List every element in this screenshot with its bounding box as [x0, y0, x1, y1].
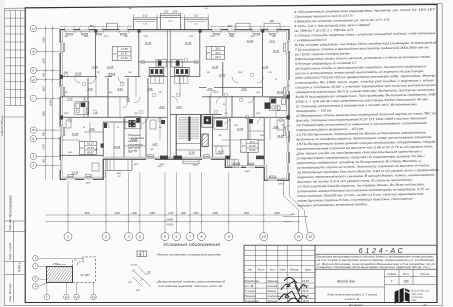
- windows right wall: [286, 40, 290, 173]
- axis circles 11 and 12 with bent leaders: [283, 181, 308, 233]
- svg-text:1870: 1870: [43, 86, 46, 92]
- svg-text:Разработал: Разработал: [245, 280, 260, 283]
- left axis circles: [30, 26, 36, 169]
- svg-text:Стадия: Стадия: [387, 273, 397, 276]
- left margin revision table: [5, 10, 26, 117]
- wall junction dark piers bottom: [60, 29, 290, 159]
- detail axis circles bottom: [44, 294, 96, 299]
- svg-text:01: 01: [117, 127, 119, 129]
- svg-text:исп. АВ: исп. АВ: [245, 285, 254, 288]
- svg-text:12607: 12607: [278, 184, 285, 186]
- sheet caption: [327, 293, 377, 301]
- lower band dark bits: [104, 119, 253, 128]
- svg-text:2100: 2100: [143, 36, 149, 38]
- entrance porch center: [183, 159, 199, 164]
- stage/sheet columns: [315, 269, 437, 302]
- svg-text:Главного Устинова (для выставк: Главного Устинова (для выставки больших …: [317, 265, 431, 269]
- svg-text:Дата: Дата: [304, 270, 312, 272]
- bottom axis circles: [64, 224, 268, 241]
- svg-text:2410: 2410: [133, 163, 140, 166]
- svg-text:/4.000: /4.000: [166, 224, 174, 227]
- svg-text:41.17: 41.17: [87, 142, 94, 146]
- svg-text:17.08: 17.08: [121, 47, 128, 51]
- svg-text:Лист: Лист: [402, 273, 409, 276]
- svg-text:Условные обозначения: Условные обозначения: [163, 242, 221, 247]
- plan annotation text block: [128, 135, 145, 153]
- svg-text:3400: 3400: [244, 212, 250, 215]
- svg-text:8: 8: [201, 235, 203, 239]
- svg-text:2680: 2680: [83, 36, 89, 38]
- svg-text:3180: 3180: [43, 111, 46, 117]
- svg-text:3600: 3600: [84, 212, 90, 215]
- balconies top center: [133, 15, 208, 29]
- svg-text:09.25: 09.25: [302, 280, 309, 283]
- svg-text:55.2: 55.2: [215, 51, 221, 55]
- institute logo: [395, 288, 410, 304]
- svg-text:ЭМ1: ЭМ1: [90, 26, 96, 28]
- top dimension line over balconies: [133, 13, 208, 20]
- detail drawing hatched unit: [36, 264, 88, 284]
- svg-text:9: 9: [228, 235, 230, 239]
- svg-text:Кол.уч: Кол.уч: [258, 270, 266, 272]
- left margin signature cells: [5, 221, 26, 303]
- svg-text:2680: 2680: [229, 36, 235, 38]
- svg-text:24600: 24600: [166, 219, 174, 222]
- svg-text:0415: 0415: [160, 163, 166, 166]
- svg-text:1200: 1200: [193, 212, 199, 215]
- svg-text:3: 3: [128, 235, 130, 239]
- svg-text:15300: 15300: [50, 99, 53, 106]
- svg-text:63 105: 63 105: [131, 264, 138, 266]
- svg-text:2400: 2400: [149, 212, 156, 215]
- svg-text:1770: 1770: [43, 144, 46, 150]
- svg-text:План отделочных работ 2, 3 эта: План отделочных работ 2, 3 этажа: [327, 293, 377, 297]
- svg-text:Маркова: Маркова: [267, 280, 278, 283]
- title block signature rows (handwritten): [245, 280, 310, 303]
- svg-text:1400: 1400: [181, 212, 187, 215]
- stair rail dark strip: [188, 117, 190, 142]
- small dim texts below bottom walls: [85, 163, 285, 186]
- svg-text:5: 5: [164, 235, 166, 239]
- svg-text:860: 860: [43, 131, 46, 136]
- svg-text:1200: 1200: [168, 212, 174, 215]
- windows top wall: [65, 29, 277, 32]
- svg-text:ЭМ1: ЭМ1: [228, 26, 234, 28]
- svg-text:- Место установки стиральной: - Место установки стиральной машины: [155, 252, 222, 256]
- svg-text:10: 10: [262, 235, 266, 239]
- radiators under windows: [63, 33, 285, 177]
- svg-text:2пГ: 2пГ: [128, 8, 133, 10]
- svg-text:Согласовано: Согласовано: [9, 195, 13, 216]
- bathroom cluster center top: [156, 59, 182, 67]
- svg-text:186: 186: [403, 280, 409, 284]
- svg-text:Рябова: Рябова: [267, 290, 276, 293]
- top dimension chain along wall: [59, 26, 289, 28]
- svg-text:2: 2: [104, 235, 107, 239]
- title block signature grid: [244, 245, 315, 302]
- svg-text:0.02: 0.02: [194, 16, 199, 18]
- svg-text:Н. контр: Н. контр: [245, 290, 256, 293]
- svg-text:передачи: передачи: [128, 140, 139, 143]
- svg-text:Подпись: Подпись: [290, 269, 300, 272]
- bathroom cluster right: [269, 98, 286, 111]
- svg-text:собственных: собственных: [128, 144, 143, 146]
- svg-text:16.08: 16.08: [249, 144, 256, 148]
- counters below vent blocks: [151, 76, 188, 83]
- svg-text:ИРКУТСКИЙ: ИРКУТСКИЙ: [412, 293, 423, 296]
- svg-text:2600: 2600: [212, 212, 219, 215]
- room area labels: [67, 40, 285, 175]
- svg-text:Инв. № подл.: Инв. № подл.: [8, 283, 12, 302]
- central bearing wall: [168, 30, 171, 158]
- svg-text:(2 этаж): (2 этаж): [128, 151, 138, 153]
- svg-text:- Дыхательный клапан, располо: - Дыхательный клапан, расположенный: [155, 280, 225, 284]
- door openings (white gaps): [97, 75, 214, 89]
- svg-text:2.08: 2.08: [163, 12, 169, 14]
- svg-text:РАЕХ: РАЕХ: [412, 299, 417, 302]
- svg-text:49.67: 49.67: [87, 150, 94, 154]
- svg-text:42.07: 42.07: [121, 52, 128, 56]
- svg-text:62.8: 62.8: [215, 55, 221, 59]
- svg-text:ПРОЕКТНЫЙ: ПРОЕКТНЫЙ: [412, 296, 424, 299]
- vent blocks flanking central wall: [149, 68, 164, 76]
- svg-text:АГ-1Б7: АГ-1Б7: [80, 273, 91, 277]
- svg-text:Рягузов: Рягузов: [267, 300, 277, 303]
- title block frame: [244, 245, 437, 302]
- stairwell walls: [176, 115, 200, 157]
- svg-text:Б: Б: [32, 137, 34, 141]
- stair flights: [178, 118, 199, 139]
- svg-text:2407: 2407: [85, 181, 92, 184]
- svg-text:Лист: Лист: [268, 270, 275, 272]
- left margin rotated labels: [8, 195, 22, 301]
- legend item valve sketch: [132, 267, 151, 288]
- scattered dimension figures: [63, 36, 286, 154]
- svg-text:А: А: [31, 164, 34, 168]
- svg-text:Снегова: Снегова: [267, 285, 277, 288]
- bathroom cluster left: [75, 102, 89, 115]
- detail drawing dashed block: [73, 257, 96, 283]
- signatures scribbles: [279, 277, 307, 303]
- svg-text:Копировал: Копировал: [349, 303, 364, 307]
- kitchen stove left: [125, 117, 141, 129]
- stair landing lines: [176, 144, 200, 151]
- balcony ledges top: [106, 23, 280, 29]
- svg-text:2407: 2407: [116, 172, 123, 175]
- svg-text:в осях 1-11: в осях 1-11: [345, 297, 360, 301]
- svg-text:В: В: [32, 128, 34, 132]
- detail connector lines: [38, 258, 94, 294]
- apartment label box 2: [206, 46, 225, 59]
- svg-text:12: 12: [75, 295, 78, 299]
- svg-text:12: 12: [308, 235, 312, 239]
- small fixture marker circles: [64, 58, 283, 122]
- interior walls horizontal: [60, 62, 289, 155]
- svg-text:2пГ: 2пГ: [204, 8, 209, 10]
- exterior wall ticks: [59, 28, 291, 138]
- entrance steps right: [227, 159, 238, 167]
- svg-text:910: 910: [43, 72, 46, 77]
- svg-text:14: 14: [92, 295, 95, 299]
- svg-text:44.34: 44.34: [121, 56, 128, 60]
- apartment label box 1: [112, 47, 131, 61]
- svg-text:2100: 2100: [188, 36, 194, 38]
- building outer wall outline: [60, 30, 289, 181]
- title description 4 lines: [315, 255, 435, 270]
- svg-text:Ж: Ж: [31, 49, 35, 53]
- general notes text block: [293, 7, 441, 207]
- svg-text:45.60: 45.60: [87, 146, 94, 150]
- legend item washing machine: [137, 251, 147, 257]
- interior bearing walls vertical: [88, 31, 264, 165]
- svg-text:ЭМ1: ЭМ1: [270, 21, 276, 23]
- svg-text:2100: 2100: [63, 113, 69, 115]
- bottom extension lines: [46, 172, 292, 224]
- svg-text:09.25: 09.25: [302, 290, 309, 293]
- svg-text:2100: 2100: [114, 212, 121, 215]
- svg-text:нужд кроме: нужд кроме: [128, 146, 141, 149]
- svg-text:2403: 2403: [192, 164, 199, 167]
- svg-text:4: 4: [139, 235, 141, 239]
- kitchen right: [214, 119, 227, 130]
- svg-text:11: 11: [297, 235, 301, 239]
- door swing arcs: [75, 77, 265, 129]
- svg-text:Утверждаю: Утверждаю: [245, 300, 259, 303]
- svg-text:под нижним выводом. Смотри лис: под нижним выводом. Смотри лист 16: [158, 284, 222, 288]
- svg-text:2100: 2100: [255, 113, 261, 115]
- svg-text:41.4: 41.4: [249, 140, 255, 144]
- detail top dim: [56, 263, 66, 265]
- svg-text:6124-АС: 6124-АС: [359, 246, 406, 255]
- svg-text:1: 1: [67, 235, 69, 239]
- svg-text:0.02: 0.02: [143, 16, 148, 18]
- windows bottom walls: [66, 157, 277, 181]
- apartment label box 3: [79, 141, 96, 154]
- svg-text:с насосной для: с насосной для: [128, 137, 145, 140]
- svg-text:Листов: Листов: [419, 273, 429, 276]
- left dimension numbers: [43, 37, 53, 163]
- svg-text:6: 6: [176, 235, 178, 239]
- entrance steps left vestibule: [107, 159, 132, 170]
- svg-text:2600: 2600: [273, 212, 280, 215]
- svg-text:900: 900: [43, 158, 46, 163]
- svg-text:АО ВОСТОЧНО-СИБ.: АО ВОСТОЧНО-СИБ.: [412, 290, 430, 293]
- lower band extra partitions and fixtures: [66, 120, 284, 171]
- windows left wall: [59, 42, 63, 170]
- title block header labels: [248, 269, 312, 272]
- svg-text:Взам. инв. №: Взам. инв. №: [9, 215, 12, 231]
- svg-text:Жилой дом: Жилой дом: [336, 279, 355, 283]
- svg-text:№док: №док: [279, 269, 286, 272]
- stove right apartment: [265, 103, 271, 109]
- thin partitions: [60, 77, 276, 171]
- bottom dimension numbers: [84, 212, 280, 227]
- svg-text:09.25: 09.25: [302, 300, 309, 303]
- svg-text:2403: 2403: [244, 170, 251, 173]
- svg-text:79.62: 79.62: [249, 148, 256, 152]
- svg-text:А: А: [31, 155, 34, 159]
- svg-text:1200: 1200: [132, 212, 138, 215]
- svg-text:А1: А1: [422, 303, 427, 307]
- svg-text:11: 11: [65, 295, 68, 299]
- svg-text:36.2: 36.2: [215, 47, 221, 51]
- svg-text:С ЕН 00. ОПд нд: С ЕН 00. ОПд нд: [0, 115, 4, 136]
- svg-text:1920: 1920: [43, 58, 46, 64]
- apartment label box 4: [241, 140, 258, 153]
- svg-text:01: 01: [275, 79, 277, 81]
- svg-text:2.08: 2.08: [172, 12, 178, 14]
- shaft hatched block: [202, 134, 208, 147]
- detail axis circles left: [33, 256, 38, 290]
- left dimension lines: [33, 26, 60, 180]
- svg-text:Изм: Изм: [248, 270, 253, 272]
- svg-text:Проверил: Проверил: [245, 295, 257, 298]
- svg-text:4-90 г.: 4-90 г.: [18, 262, 22, 272]
- top tiny labels: [128, 8, 209, 26]
- svg-text:2280: 2280: [43, 37, 46, 44]
- elevator shaft: [202, 115, 213, 128]
- svg-text:Подп. и дата: Подп. и дата: [8, 242, 12, 260]
- svg-text:Помещение: Помещение: [128, 135, 142, 137]
